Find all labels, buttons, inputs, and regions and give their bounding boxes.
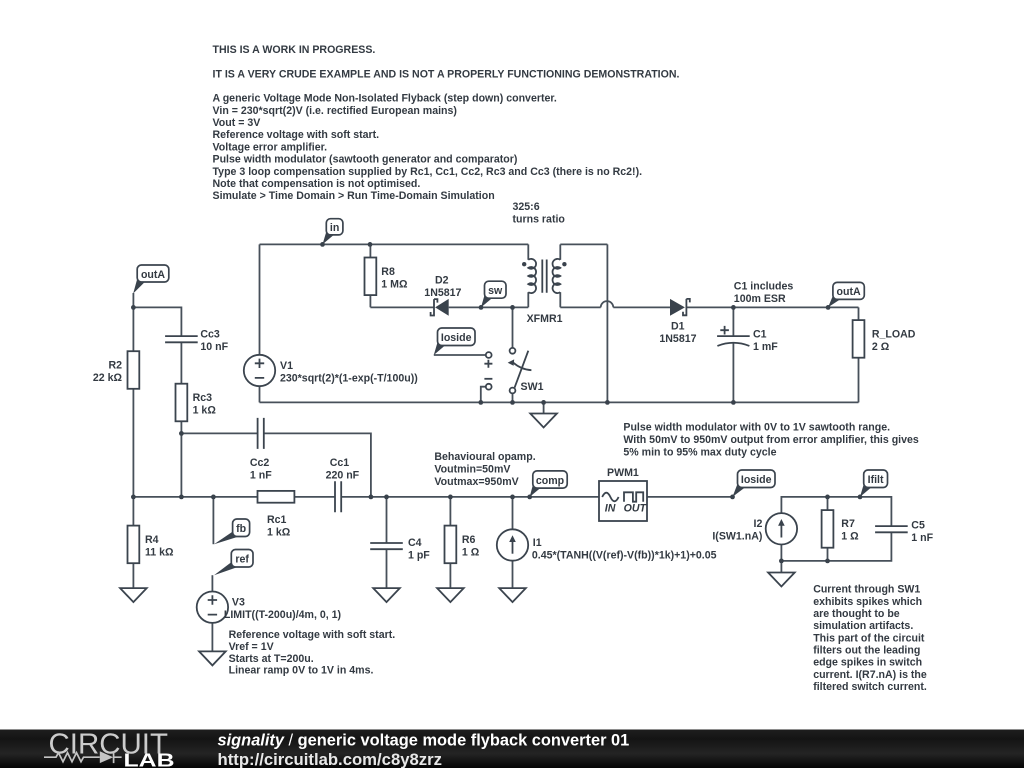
svg-text:325:6: 325:6 bbox=[513, 201, 540, 213]
wire bus Cc1 to PWM1 input bbox=[341, 496, 599, 498]
svg-text:Starts at T=200u.: Starts at T=200u. bbox=[229, 653, 314, 665]
wire R2 top stub bbox=[132, 307, 134, 351]
svg-text:Type 3 loop compensation suppl: Type 3 loop compensation supplied by Rc1… bbox=[213, 166, 643, 178]
switch SW1 bottom terminal bbox=[510, 388, 516, 394]
current source I1 bbox=[497, 529, 528, 560]
wire hop to D1 anode bbox=[613, 306, 670, 308]
svg-text:PWM1: PWM1 bbox=[607, 467, 639, 479]
flag Ioside switch control bbox=[434, 340, 446, 355]
flag Ifilt bbox=[860, 482, 872, 497]
ground below R6 bbox=[437, 588, 464, 602]
svg-text:1 Ω: 1 Ω bbox=[841, 530, 859, 542]
wire C1 top stub bbox=[732, 307, 734, 336]
current source I2 bbox=[766, 513, 797, 544]
resistor R8 bbox=[365, 258, 377, 296]
svg-text:in: in bbox=[330, 222, 339, 234]
resistor Rc3 bbox=[176, 384, 188, 422]
node dot outA left bbox=[131, 305, 136, 310]
node dot Ioside wire end bbox=[730, 495, 735, 500]
svg-text:1 pF: 1 pF bbox=[408, 549, 430, 561]
wire xfmr secondary top stub bbox=[559, 244, 561, 259]
switch SW1 blade bbox=[515, 351, 529, 388]
wire R7 bottom stub bbox=[827, 546, 829, 561]
svg-text:Cc2: Cc2 bbox=[250, 457, 270, 469]
svg-text:filtered switch current.: filtered switch current. bbox=[813, 681, 927, 693]
svg-text:Pulse width modulator with 0V: Pulse width modulator with 0V to 1V sawt… bbox=[623, 422, 890, 434]
svg-text:Ioside: Ioside bbox=[741, 474, 772, 486]
wire xfmr right leg vertical bbox=[606, 244, 608, 402]
node dot bus I1 bbox=[510, 495, 515, 500]
svg-text:1 kΩ: 1 kΩ bbox=[267, 527, 291, 539]
ground below R4 bbox=[120, 588, 147, 602]
wire C1 bottom stub bbox=[732, 343, 734, 403]
wire bottom rail bbox=[260, 401, 859, 403]
svg-text:R4: R4 bbox=[145, 534, 159, 546]
logo diode symbol bbox=[100, 751, 113, 763]
wire I1 top stub bbox=[512, 497, 514, 529]
svg-text:1 mF: 1 mF bbox=[753, 341, 778, 353]
svg-text:IN: IN bbox=[605, 502, 616, 514]
flag sw bbox=[481, 293, 493, 307]
transformer XFMR1 primary winding bbox=[528, 259, 536, 293]
svg-text:22 kΩ: 22 kΩ bbox=[93, 372, 123, 384]
svg-text:5% min to 95% max duty cycle: 5% min to 95% max duty cycle bbox=[623, 447, 776, 459]
wire filter bottom rail bbox=[781, 533, 891, 561]
wire top rail right (xfmr secondary to right leg) bbox=[560, 243, 607, 245]
svg-text:V3: V3 bbox=[232, 597, 245, 609]
ground below I1 bbox=[499, 588, 526, 602]
flag comp bbox=[530, 483, 541, 497]
svg-text:Rc1: Rc1 bbox=[267, 514, 287, 526]
svg-text:signality / generic voltage mo: signality / generic voltage mode flyback… bbox=[218, 731, 630, 749]
node dot bus Rc3 bbox=[179, 495, 184, 500]
node dot bus R2 bbox=[131, 495, 136, 500]
node dot ground rail bbox=[541, 400, 546, 405]
wire C4 bottom stub bbox=[386, 549, 388, 588]
node dot R8 top bbox=[368, 242, 373, 247]
svg-text:A generic Voltage Mode Non-Iso: A generic Voltage Mode Non-Isolated Flyb… bbox=[213, 93, 557, 105]
node dot bus Cc2 bbox=[369, 495, 374, 500]
capacitor C1 polarized bbox=[717, 335, 750, 337]
wire bus left segment bbox=[133, 496, 257, 498]
svg-text:1 nF: 1 nF bbox=[250, 469, 272, 481]
svg-text:Simulate > Time Domain > Run T: Simulate > Time Domain > Run Time-Domain… bbox=[213, 190, 495, 202]
node dot R7 top bbox=[825, 495, 830, 500]
node dot Ifilt bbox=[858, 495, 863, 500]
node dot outA right bbox=[826, 305, 831, 310]
svg-text:Cc1: Cc1 bbox=[330, 457, 350, 469]
footer bar bbox=[0, 730, 1024, 768]
node dot C1 top bbox=[731, 305, 736, 310]
svg-text:With 50mV to 950mV output from: With 50mV to 950mV output from error amp… bbox=[623, 434, 919, 446]
wire V3 to ground bbox=[211, 623, 213, 652]
svg-text:10 nF: 10 nF bbox=[200, 341, 228, 353]
svg-text:simulation artifacts.: simulation artifacts. bbox=[813, 620, 913, 632]
node dot bus fb bbox=[211, 495, 216, 500]
flag outA right bbox=[828, 294, 841, 307]
svg-text:R7: R7 bbox=[841, 518, 855, 530]
svg-text:C1 includes: C1 includes bbox=[734, 280, 794, 292]
node dot SW1 rail bbox=[510, 400, 515, 405]
wire R4 top stub bbox=[132, 497, 134, 526]
diode D2 1N5817 bbox=[435, 299, 449, 316]
svg-text:outA: outA bbox=[837, 286, 861, 298]
wire PWM1 output to Ioside bbox=[647, 496, 733, 498]
svg-text:I1: I1 bbox=[533, 537, 542, 549]
wire outA-left flag to node bbox=[132, 293, 134, 307]
wire lead node to Cc2 bbox=[181, 432, 257, 434]
resistor R2 bbox=[128, 351, 140, 389]
resistor R7 bbox=[822, 510, 834, 548]
wire R4 bottom stub bbox=[132, 563, 134, 588]
svg-text:Vout = 3V: Vout = 3V bbox=[213, 117, 261, 129]
svg-text:C5: C5 bbox=[911, 520, 925, 532]
capacitor Cc1 bbox=[335, 481, 341, 512]
wire ref stub to V3 bbox=[211, 575, 213, 591]
svg-text:220 nF: 220 nF bbox=[326, 469, 360, 481]
wire Rc3 to lead node bbox=[180, 421, 182, 433]
wire ground stub below SW1 rail bbox=[543, 402, 545, 413]
svg-text:http://circuitlab.com/c8y8zrz: http://circuitlab.com/c8y8zrz bbox=[218, 750, 443, 768]
switch SW1 actuator arrow bbox=[508, 359, 515, 365]
svg-text:Ioside: Ioside bbox=[441, 332, 472, 344]
svg-text:sw: sw bbox=[488, 285, 503, 297]
svg-text:R6: R6 bbox=[462, 534, 476, 546]
svg-text:D1: D1 bbox=[671, 321, 685, 333]
wire R_LOAD bottom stub bbox=[858, 358, 860, 403]
wire C4 top stub bbox=[386, 497, 388, 543]
wire R6 bottom stub bbox=[449, 563, 451, 588]
svg-text:0.45*(TANH((V(ref)-V(fb))*1k)+: 0.45*(TANH((V(ref)-V(fb))*1k)+1)+0.05 bbox=[532, 549, 717, 561]
svg-text:100m ESR: 100m ESR bbox=[734, 293, 786, 305]
svg-text:Vin = 230*sqrt(2)V (i.e. recti: Vin = 230*sqrt(2)V (i.e. rectified Europ… bbox=[213, 105, 457, 117]
svg-text:LAB: LAB bbox=[124, 750, 175, 768]
svg-text:1 nF: 1 nF bbox=[911, 532, 933, 544]
wire SW1 top from sw row bbox=[512, 307, 514, 348]
resistor Rc1 bbox=[258, 491, 295, 503]
svg-text:230*sqrt(2)*(1-exp(-T/100u)): 230*sqrt(2)*(1-exp(-T/100u)) bbox=[280, 372, 418, 384]
node dot Rc3 lead bbox=[179, 431, 184, 436]
logo resistor squiggle bbox=[44, 753, 96, 762]
node dot C1 rail bbox=[731, 400, 736, 405]
flag Ioside filter bbox=[733, 482, 746, 497]
svg-text:I(SW1.nA): I(SW1.nA) bbox=[712, 531, 762, 543]
wire SW1 bottom stub bbox=[512, 393, 514, 402]
switch SW1 top terminal bbox=[510, 348, 516, 354]
transformer XFMR1 secondary winding bbox=[553, 259, 561, 293]
svg-text:Voutmax=950mV: Voutmax=950mV bbox=[434, 476, 518, 488]
node dot SW1 branch bbox=[510, 305, 515, 310]
switch SW1 control plus mark bbox=[484, 360, 492, 368]
wire xfmr secondary bottom stub bbox=[559, 292, 561, 307]
svg-text:IT IS A VERY CRUDE EXAMPLE AND: IT IS A VERY CRUDE EXAMPLE AND IS NOT A … bbox=[213, 69, 680, 81]
svg-text:Reference voltage with soft st: Reference voltage with soft start. bbox=[229, 629, 396, 641]
svg-text:C4: C4 bbox=[408, 537, 422, 549]
wire lead node down to bus bbox=[180, 433, 182, 497]
behavioral block PWM1 box bbox=[599, 481, 647, 521]
PWM1 sine icon bbox=[602, 493, 618, 502]
switch SW1 control minus mark bbox=[484, 378, 492, 380]
svg-text:THIS IS A WORK IN PROGRESS.: THIS IS A WORK IN PROGRESS. bbox=[213, 44, 376, 56]
svg-text:1 Ω: 1 Ω bbox=[462, 546, 480, 558]
svg-text:1N5817: 1N5817 bbox=[659, 333, 696, 345]
svg-text:1 kΩ: 1 kΩ bbox=[193, 405, 217, 417]
wire secondary bottom to hop bbox=[560, 306, 600, 308]
wire Cc2 to corner and down to bus bbox=[264, 433, 371, 497]
wire left rail lower (V1 minus to bottom rail) bbox=[259, 386, 261, 402]
svg-text:are thought to be: are thought to be bbox=[813, 608, 900, 620]
wire I2 ground stub bbox=[780, 561, 782, 573]
svg-text:Linear ramp 0V to 1V in 4ms.: Linear ramp 0V to 1V in 4ms. bbox=[229, 665, 374, 677]
svg-text:SW1: SW1 bbox=[521, 381, 544, 393]
wire Cc3 to Rc3 bbox=[180, 343, 182, 384]
svg-text:turns ratio: turns ratio bbox=[513, 213, 566, 225]
flag in bbox=[323, 230, 335, 245]
svg-text:comp: comp bbox=[536, 475, 565, 487]
svg-text:1N5817: 1N5817 bbox=[424, 287, 461, 299]
wire I1 bottom stub bbox=[512, 561, 514, 588]
wire switch control minus to bottom rail bbox=[481, 387, 486, 403]
wire filter top rail bbox=[781, 497, 891, 526]
wire xfmr primary bottom stub bbox=[527, 292, 529, 307]
svg-text:current. I(R7.nA) is the: current. I(R7.nA) is the bbox=[813, 669, 927, 681]
wire top rail left (in to xfmr primary) bbox=[260, 243, 529, 245]
wire R8 top stub bbox=[369, 244, 371, 257]
svg-text:fb: fb bbox=[236, 523, 247, 535]
wire bus Rc1 to Cc1 bbox=[294, 496, 335, 498]
svg-text:Current through SW1: Current through SW1 bbox=[813, 584, 920, 596]
capacitor C5 bbox=[875, 526, 908, 532]
svg-text:exhibits spikes which: exhibits spikes which bbox=[813, 596, 922, 608]
svg-text:R8: R8 bbox=[381, 266, 395, 278]
wire fb stub bbox=[212, 497, 214, 544]
svg-text:Voltage error amplifier.: Voltage error amplifier. bbox=[213, 141, 328, 153]
svg-text:R2: R2 bbox=[108, 360, 122, 372]
svg-text:R_LOAD: R_LOAD bbox=[872, 328, 916, 340]
svg-text:Cc3: Cc3 bbox=[200, 328, 220, 340]
ground below C4 bbox=[373, 588, 400, 602]
svg-text:Ifilt: Ifilt bbox=[868, 474, 884, 486]
svg-text:Rc3: Rc3 bbox=[193, 392, 213, 404]
svg-text:I2: I2 bbox=[754, 518, 763, 530]
node dot bus R6 bbox=[448, 495, 453, 500]
PWM1 square wave icon bbox=[624, 492, 643, 501]
transformer XFMR1 primary dot bbox=[522, 262, 526, 266]
voltage source V1 bbox=[244, 355, 275, 386]
node dot bus C4 bbox=[384, 495, 389, 500]
svg-text:Vref = 1V: Vref = 1V bbox=[229, 641, 274, 653]
node dot in flag bbox=[320, 242, 325, 247]
svg-text:Voutmin=50mV: Voutmin=50mV bbox=[434, 464, 510, 476]
wire hop over vertical bbox=[601, 301, 614, 307]
node dot R7 bottom bbox=[825, 559, 830, 564]
wire xfmr primary top stub bbox=[527, 244, 529, 259]
svg-text:1 MΩ: 1 MΩ bbox=[381, 279, 408, 291]
capacitor C4 bbox=[370, 543, 403, 549]
svg-text:Note that compensation is not: Note that compensation is not optimised. bbox=[213, 178, 421, 190]
resistor R_LOAD bbox=[853, 320, 865, 358]
wire D1 cathode to C1 to outA to R_LOAD bbox=[686, 306, 858, 308]
svg-text:C1: C1 bbox=[753, 328, 767, 340]
wire R8 bottom stub bbox=[369, 295, 371, 307]
capacitor Cc2 bbox=[258, 418, 264, 449]
resistor R4 bbox=[128, 526, 140, 564]
svg-text:outA: outA bbox=[141, 269, 165, 281]
node dot sw bbox=[479, 305, 484, 310]
svg-text:Behavioural opamp.: Behavioural opamp. bbox=[434, 451, 535, 463]
wire R6 top stub bbox=[449, 497, 451, 526]
svg-text:filters out the leading: filters out the leading bbox=[813, 645, 920, 657]
wire R8 to D2 cathode bbox=[370, 306, 434, 308]
wire R_LOAD top stub bbox=[858, 307, 860, 320]
diode D1 1N5817 bbox=[670, 299, 685, 316]
ground below V3 bbox=[199, 651, 226, 665]
switch SW1 control plus terminal bbox=[486, 352, 492, 358]
flag outA left bbox=[133, 277, 145, 294]
ground below SW1 rail bbox=[530, 414, 557, 428]
switch SW1 actuator arc bbox=[513, 362, 532, 370]
wire R2 bottom to bus bbox=[132, 389, 134, 497]
svg-text:D2: D2 bbox=[435, 275, 449, 287]
ground below I2 bbox=[768, 573, 795, 587]
svg-text:11 kΩ: 11 kΩ bbox=[145, 546, 174, 558]
svg-text:OUT: OUT bbox=[624, 502, 648, 514]
transformer XFMR1 core bbox=[542, 260, 546, 293]
wire D2 anode to sw node to xfmr primary bottom bbox=[449, 306, 529, 308]
svg-text:ref: ref bbox=[235, 554, 249, 566]
svg-text:LIMIT((T-200u)/4m, 0, 1): LIMIT((T-200u)/4m, 0, 1) bbox=[224, 609, 341, 621]
node dot control minus rail bbox=[478, 400, 483, 405]
switch SW1 control minus terminal bbox=[486, 384, 492, 390]
flag fb bbox=[214, 531, 241, 544]
wire Ioside to switch control plus bbox=[434, 354, 486, 356]
node dot I2 bottom bbox=[779, 559, 784, 564]
resistor R6 bbox=[445, 526, 457, 564]
node dot xfmr leg rail bbox=[605, 400, 610, 405]
svg-text:XFMR1: XFMR1 bbox=[527, 313, 563, 325]
svg-text:2 Ω: 2 Ω bbox=[872, 341, 890, 353]
svg-text:V1: V1 bbox=[280, 360, 293, 372]
voltage source V3 bbox=[197, 592, 228, 623]
node dot bus comp bbox=[527, 495, 532, 500]
wire left rail upper (V1 plus to top rail) bbox=[259, 244, 261, 355]
flag ref bbox=[214, 562, 240, 576]
capacitor Cc3 bbox=[165, 336, 198, 342]
transformer XFMR1 secondary dot bbox=[562, 262, 566, 266]
wire outA node to Cc3 branch corner bbox=[133, 307, 181, 336]
svg-text:Reference voltage with soft st: Reference voltage with soft start. bbox=[213, 129, 380, 141]
svg-text:Pulse width modulator (sawtoot: Pulse width modulator (sawtooth generato… bbox=[213, 154, 518, 166]
svg-text:edge spikes in switch: edge spikes in switch bbox=[813, 657, 922, 669]
svg-text:This part of the circuit: This part of the circuit bbox=[813, 632, 925, 644]
wire R7 top stub bbox=[827, 497, 829, 510]
